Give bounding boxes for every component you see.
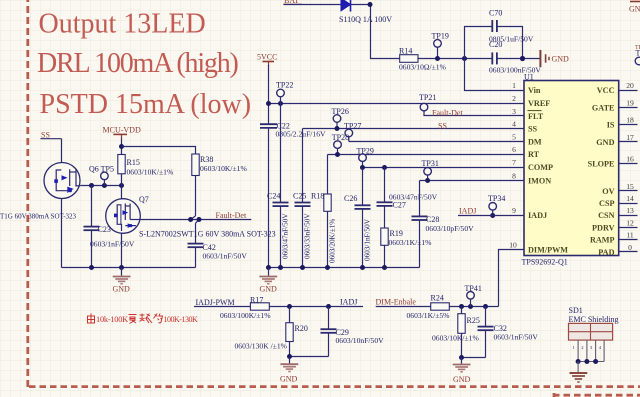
svg-text:17: 17 <box>626 133 634 142</box>
wire left ground rail <box>62 267 196 269</box>
testpoint TP34 <box>488 194 505 218</box>
svg-text:CSP: CSP <box>599 199 614 208</box>
svg-text:C20: C20 <box>489 40 502 49</box>
shield SD1 EMC Shielding <box>569 306 619 364</box>
svg-text:Fault-Det: Fault-Det <box>432 109 463 118</box>
svg-text:R17: R17 <box>250 295 263 304</box>
svg-text:SLOPE: SLOPE <box>588 160 615 169</box>
wire mid ground rail <box>266 267 420 269</box>
svg-text:R25: R25 <box>467 316 480 325</box>
svg-text:PDRV: PDRV <box>592 224 615 233</box>
wire R25 C32 bottoms <box>462 357 486 359</box>
resistor R15 <box>118 155 174 177</box>
diode D S110Q <box>339 0 392 24</box>
svg-text:COMP: COMP <box>528 163 553 172</box>
svg-text:10: 10 <box>509 241 517 250</box>
svg-text:GND: GND <box>596 138 614 147</box>
resistor R25 column <box>432 307 480 358</box>
capacitor C28 column <box>412 181 475 268</box>
svg-text:C28: C28 <box>426 215 439 224</box>
ground SD1 <box>570 362 588 383</box>
border dashed second bottom-right <box>553 394 640 397</box>
wire branch to R38 <box>122 147 196 155</box>
svg-text:R24: R24 <box>431 294 444 303</box>
svg-text:C25: C25 <box>293 191 306 200</box>
testpoint TP21 <box>419 93 436 116</box>
junction Vin node <box>462 56 467 61</box>
wire Q6 drain to R15 column <box>80 185 121 187</box>
svg-text:0603/1nF/50V: 0603/1nF/50V <box>203 252 248 261</box>
svg-text:IS: IS <box>607 120 615 129</box>
svg-text:FLT: FLT <box>528 112 544 121</box>
svg-text:IADJ: IADJ <box>528 211 547 220</box>
testpoint TP29 <box>357 146 374 170</box>
svg-text:VREF: VREF <box>528 99 550 108</box>
svg-text:4: 4 <box>512 120 516 129</box>
svg-text:10k-100K: 10k-100K <box>96 315 128 324</box>
svg-text:GND: GND <box>552 55 570 64</box>
svg-text:0603/10K/±1%: 0603/10K/±1% <box>127 168 174 177</box>
svg-text:Output 13LED: Output 13LED <box>39 9 206 40</box>
wire FLT line pin3 <box>423 115 524 117</box>
svg-text:0603/1K/±1%: 0603/1K/±1% <box>389 238 433 247</box>
svg-text:0805/2.2uF/16V: 0805/2.2uF/16V <box>276 130 327 139</box>
wire Q7 gate column through circle <box>121 186 123 201</box>
svg-text:2: 2 <box>512 94 516 103</box>
wire BAT to diode <box>284 4 341 6</box>
svg-text:TP28: TP28 <box>332 133 349 142</box>
capacitor C20 <box>489 40 541 75</box>
power MCU-VDD <box>103 126 141 140</box>
testpoint TP27 <box>344 121 361 141</box>
wire 5VCC rail down to C22 <box>268 65 270 124</box>
svg-text:0: 0 <box>628 243 632 252</box>
svg-text:0603/10pF/50V: 0603/10pF/50V <box>426 224 475 233</box>
testpoint TP31 <box>422 159 439 183</box>
svg-text:0603/20K/±1%: 0603/20K/±1% <box>329 219 337 263</box>
annotation chinese red <box>88 314 198 325</box>
testpoint TP19 <box>432 32 449 62</box>
capacitor C26 column <box>344 168 371 268</box>
svg-text:TP26: TP26 <box>332 107 349 116</box>
resistor R24 <box>407 294 451 321</box>
svg-text:DIM/PWM: DIM/PWM <box>528 246 568 255</box>
border dashed bottom <box>29 385 640 388</box>
svg-text:TP19: TP19 <box>432 32 449 41</box>
capacitor C29 column <box>321 307 385 357</box>
svg-text:R14: R14 <box>399 47 412 56</box>
svg-text:R15: R15 <box>127 158 140 167</box>
svg-text:Vin: Vin <box>528 86 541 95</box>
svg-text:DRL 100mA (high): DRL 100mA (high) <box>37 48 239 79</box>
svg-text:0603/10K/±1%: 0603/10K/±1% <box>200 164 247 173</box>
ground bottom mid <box>280 357 298 384</box>
svg-text:0603/10nF/50V: 0603/10nF/50V <box>336 336 385 345</box>
svg-text:S-L2N7002SWT1G 60V 380mA SOT-3: S-L2N7002SWT1G 60V 380mA SOT-323 <box>139 230 276 239</box>
svg-text:IADJ: IADJ <box>459 206 476 215</box>
svg-text:13: 13 <box>626 206 634 215</box>
svg-text:Fault-Det: Fault-Det <box>216 211 247 220</box>
svg-text:SS: SS <box>41 130 50 139</box>
wire SS line pin4 <box>303 128 525 130</box>
svg-text:R19: R19 <box>390 229 403 238</box>
svg-text:SS: SS <box>528 125 538 134</box>
wire SS column down through Q6 <box>61 139 63 170</box>
svg-text:19: 19 <box>626 98 634 107</box>
svg-text:0603/10Ω/±1%: 0603/10Ω/±1% <box>399 63 447 72</box>
svg-text:0603/1nF/50V: 0603/1nF/50V <box>363 218 371 261</box>
wire diode to corner <box>351 5 400 59</box>
node DIM-Enbale label <box>376 298 431 307</box>
svg-text:20: 20 <box>626 81 634 90</box>
svg-text:T1G 60V 380mA SOT-323: T1G 60V 380mA SOT-323 <box>0 213 77 221</box>
wire R24 to DIM corner <box>449 306 498 308</box>
testpoint right edge <box>635 45 640 65</box>
wire IMON line pin8 <box>420 180 525 182</box>
testpoint TP5 <box>89 164 114 185</box>
svg-text:100K-130K: 100K-130K <box>164 315 198 324</box>
svg-text:11: 11 <box>626 231 634 240</box>
svg-text:5: 5 <box>512 132 516 141</box>
node BAT <box>283 0 302 5</box>
svg-text:DIM-Enbale: DIM-Enbale <box>376 298 417 307</box>
svg-text:GND: GND <box>280 375 298 384</box>
svg-text:18: 18 <box>626 115 634 124</box>
svg-text:RAMP: RAMP <box>590 236 615 245</box>
wire Fault-Det from Q7 drain <box>140 219 251 221</box>
wire MCU-VDD down to R15 <box>121 139 123 155</box>
resistor R17 <box>220 295 271 320</box>
testpoint TP41 <box>465 284 482 307</box>
svg-text:5VCC: 5VCC <box>257 53 277 62</box>
svg-text:RT: RT <box>528 150 540 159</box>
svg-text:C26: C26 <box>344 194 357 203</box>
svg-text:OV: OV <box>602 187 614 196</box>
svg-text:IMON: IMON <box>528 176 551 185</box>
wire R38 down to Fault-Det with jog <box>191 176 199 244</box>
capacitor C24 column <box>267 104 289 268</box>
capacitor C27 + resistor R19 column <box>377 165 438 268</box>
svg-text:0603/1K/±5%: 0603/1K/±5% <box>407 311 451 320</box>
svg-text:1: 1 <box>512 81 516 90</box>
testpoint TP28 <box>332 133 349 157</box>
testpoint TP26 <box>332 107 349 131</box>
svg-text:12: 12 <box>626 219 634 228</box>
svg-text:EMC Shielding: EMC Shielding <box>569 315 619 324</box>
svg-text:S110Q 1A 100V: S110Q 1A 100V <box>339 15 392 24</box>
wire Vin drop to pin 1 <box>465 59 525 91</box>
svg-text:TPS92692-Q1: TPS92692-Q1 <box>522 258 568 267</box>
wire R20 C29 bottoms <box>290 356 329 358</box>
power 5VCC <box>257 53 277 67</box>
svg-text:DM: DM <box>528 137 542 146</box>
svg-text:TP29: TP29 <box>357 146 374 155</box>
wire C22 down to gnd rail <box>268 128 270 268</box>
svg-text:0603/100K/±1%: 0603/100K/±1% <box>220 311 271 320</box>
testpoint TP22 <box>276 81 293 104</box>
svg-text:TP41: TP41 <box>465 284 482 293</box>
ground sideways right of C20 <box>540 50 569 67</box>
svg-text:VCC: VCC <box>597 86 615 95</box>
capacitor C22 <box>260 121 326 138</box>
svg-text:MCU-VDD: MCU-VDD <box>103 126 141 135</box>
svg-text:0603/1nF/50V: 0603/1nF/50V <box>90 240 135 249</box>
resistor R20 column <box>235 307 308 357</box>
svg-text:3: 3 <box>512 107 516 116</box>
svg-text:9: 9 <box>512 206 516 215</box>
svg-text:0603/10K/±1%: 0603/10K/±1% <box>432 334 479 343</box>
svg-text:SS: SS <box>438 121 447 130</box>
wire R15 bottom to junction <box>121 174 123 186</box>
border dashed left <box>26 0 29 387</box>
svg-text:C27: C27 <box>393 201 406 210</box>
svg-text:PAD: PAD <box>598 248 614 257</box>
capacitor C42 <box>188 243 248 268</box>
capacitor C70 branch <box>465 9 534 59</box>
svg-text:GND: GND <box>113 285 131 294</box>
svg-text:6: 6 <box>512 145 516 154</box>
svg-text:GND: GND <box>629 5 640 14</box>
svg-text:0603/1nF/50V: 0603/1nF/50V <box>494 333 539 342</box>
svg-text:14: 14 <box>626 194 634 203</box>
svg-text:15: 15 <box>626 182 634 191</box>
resistor R18 column <box>311 155 337 268</box>
resistor R38 <box>192 154 248 176</box>
svg-text:T: T <box>636 49 640 58</box>
wire RT line pin6 <box>328 154 525 156</box>
svg-text:CSN: CSN <box>598 211 614 220</box>
transistor Q7 <box>106 199 141 234</box>
U1 right pin stubs 20..0 <box>619 91 638 252</box>
svg-text:R38: R38 <box>200 155 213 164</box>
U1 left pin numbers <box>509 81 517 249</box>
svg-text:C23: C23 <box>98 225 111 234</box>
svg-text:0603/47nF/50V: 0603/47nF/50V <box>281 213 289 259</box>
U1 right pin numbers <box>626 81 634 252</box>
wire COMP line pin7 <box>363 167 525 169</box>
svg-text:Q7: Q7 <box>139 195 149 204</box>
svg-text:TP34: TP34 <box>488 194 505 203</box>
svg-text:0603/130K /±1%: 0603/130K /±1% <box>235 342 288 351</box>
svg-text:16: 16 <box>626 155 634 164</box>
svg-text:C70: C70 <box>489 9 502 18</box>
junction at diode output <box>368 2 373 7</box>
ground left rail <box>113 268 131 294</box>
IC U1 body <box>522 73 619 267</box>
U1 left pin names <box>528 86 569 254</box>
wire R17 to IADJ <box>269 306 363 308</box>
node SS left label <box>40 130 61 139</box>
svg-text:TP22: TP22 <box>276 81 293 90</box>
svg-text:7: 7 <box>512 158 516 167</box>
U1 right pin names <box>588 86 615 257</box>
svg-text:TP27: TP27 <box>344 121 361 130</box>
svg-text:IADJ-PWM: IADJ-PWM <box>196 298 235 307</box>
svg-text:0603/100nF/50V: 0603/100nF/50V <box>489 66 541 75</box>
wire VREF line pin2 <box>269 103 525 105</box>
svg-text:8: 8 <box>512 171 516 180</box>
capacitor C25 column <box>293 129 312 268</box>
svg-text:GND: GND <box>453 375 471 384</box>
ground bottom right <box>453 358 471 385</box>
svg-text:Q6 TP5: Q6 TP5 <box>89 164 114 173</box>
wire R14 to Vin node <box>418 58 492 60</box>
svg-text:0603/33nF/50V: 0603/33nF/50V <box>304 213 312 259</box>
svg-text:SD1: SD1 <box>569 306 583 315</box>
svg-text:R20: R20 <box>295 324 308 333</box>
svg-text:GATE: GATE <box>592 103 615 112</box>
svg-text:R18: R18 <box>311 191 324 200</box>
svg-text:C24: C24 <box>267 191 280 200</box>
transistor Q6 <box>44 163 80 199</box>
wire DM line pin5 <box>349 141 524 143</box>
node IADJ-PWM label <box>194 298 250 307</box>
svg-text:TP21: TP21 <box>419 93 436 102</box>
svg-text:GND: GND <box>260 285 278 294</box>
power GND top right corner <box>629 2 640 14</box>
capacitor C23 column <box>84 186 135 268</box>
resistor R14 <box>399 47 447 72</box>
wire IADJ line pin9 <box>458 215 524 217</box>
wire DIM/PWM pin10 route <box>499 250 525 307</box>
svg-text:TP31: TP31 <box>422 159 439 168</box>
svg-text:PSTD 15mA (low): PSTD 15mA (low) <box>40 89 252 120</box>
capacitor C32 column <box>478 307 539 358</box>
svg-text:IADJ: IADJ <box>340 298 357 307</box>
ground mid rail <box>259 268 277 294</box>
